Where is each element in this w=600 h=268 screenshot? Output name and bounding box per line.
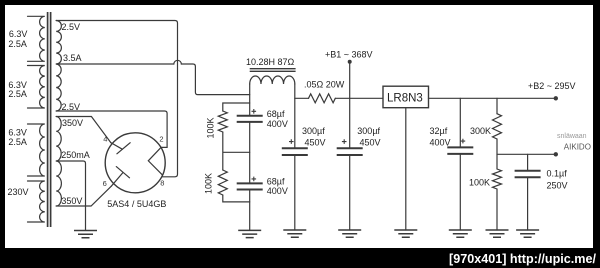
wire C1 to C2	[249, 122, 251, 183]
svg-text:250V: 250V	[547, 180, 568, 190]
svg-text:6: 6	[103, 179, 107, 188]
svg-text:2.5V: 2.5V	[62, 22, 81, 32]
wire R2 bottom connect	[223, 195, 250, 202]
svg-text:250mA: 250mA	[61, 150, 90, 160]
svg-text:2.5V: 2.5V	[62, 102, 81, 112]
wire R5 to ground	[496, 189, 498, 230]
wire heater tap to choke input node	[181, 64, 249, 95]
svg-text:2.5A: 2.5A	[8, 137, 27, 147]
wire rail choke to R3	[295, 97, 309, 99]
resistor R2 100K bleeder lower	[218, 170, 227, 195]
label C4 300uf 450V	[357, 126, 380, 148]
svg-text:400V: 400V	[267, 186, 288, 196]
ground center tap	[74, 231, 97, 238]
resistor R5 100K	[493, 169, 502, 189]
svg-text:68µf: 68µf	[267, 176, 285, 186]
svg-text:100K: 100K	[469, 177, 490, 187]
svg-text:3.5A: 3.5A	[63, 53, 82, 63]
label 250mA center tap	[61, 150, 90, 160]
label 6.3V 2.5A winding W2	[8, 80, 27, 99]
tube plate (pin 4)	[111, 143, 130, 154]
svg-text:snläwaan: snläwaan	[557, 133, 587, 140]
wire R4 to divider tap	[496, 139, 498, 169]
wire heater bottom 2.5V to tube pin 2	[56, 111, 167, 147]
resistor R4 300K	[493, 114, 502, 139]
svg-text:350V: 350V	[61, 196, 82, 206]
transformer T1 primary winding W3	[28, 124, 45, 176]
label R2 100K	[204, 173, 214, 194]
svg-text:100K: 100K	[206, 117, 216, 138]
svg-text:400V: 400V	[430, 137, 451, 147]
choke L1 winding	[250, 76, 295, 84]
ground C6	[516, 230, 539, 237]
svg-text:32µf: 32µf	[430, 126, 448, 136]
node B1	[348, 60, 352, 64]
label R4 300K	[470, 126, 491, 136]
label 6.3V 2.5A winding W3	[8, 127, 27, 147]
ground C2	[238, 230, 261, 237]
svg-text:350V: 350V	[62, 118, 83, 128]
ground R5	[486, 230, 509, 237]
node AIKIDO output	[554, 152, 558, 156]
tube plate (pin 6)	[111, 167, 129, 187]
svg-text:+B2 ~ 295V: +B2 ~ 295V	[528, 81, 576, 91]
label tube 5AS4 / 5U4GB	[107, 199, 166, 209]
svg-text:100K: 100K	[204, 173, 214, 194]
svg-text:2.5A: 2.5A	[8, 39, 27, 49]
wire 100K chain top connect	[223, 103, 250, 111]
label +B2 ~ 295V	[528, 81, 576, 91]
label AIKIDO	[564, 143, 591, 152]
wire hop over pin-8 wire	[174, 60, 181, 64]
label 350V upper	[62, 118, 83, 128]
label 350V lower	[61, 196, 82, 206]
wire C5 to ground	[459, 154, 461, 230]
regulator U1 LR8N3	[383, 86, 429, 108]
svg-text:2.5A: 2.5A	[8, 89, 27, 99]
ground C3	[283, 230, 306, 237]
transformer T1 primary winding W2	[28, 66, 45, 108]
svg-text:300K: 300K	[470, 126, 491, 136]
svg-text:6.3V: 6.3V	[8, 127, 27, 137]
svg-text:2: 2	[159, 134, 163, 143]
label 2.5V top winding	[62, 22, 81, 32]
svg-text:400V: 400V	[267, 119, 288, 129]
svg-text:8: 8	[160, 178, 164, 187]
label R1 100K	[206, 117, 216, 138]
tube filament	[148, 147, 162, 175]
pin number 8	[160, 178, 164, 187]
transformer T1 primary winding W4 230V	[28, 181, 45, 222]
wire choke right terminal down to C3	[294, 84, 296, 148]
wire C6 to ground	[527, 177, 529, 230]
wire rail U1 output to B2	[429, 97, 556, 99]
pin number 2	[159, 134, 163, 143]
wire HV center tap 250mA to ground	[56, 161, 85, 230]
wire C2 to ground	[249, 190, 251, 231]
label R5 100K	[469, 177, 490, 187]
resistor R3 .05ohm 20W	[309, 94, 336, 103]
label C3 300uf 450V	[302, 126, 326, 148]
rectifier tube V1 envelope	[105, 133, 165, 193]
wire heater top to tube pin 8	[56, 21, 177, 177]
capacitor C1 68uf 400V	[237, 109, 263, 122]
label +B1 ~ 368V	[325, 50, 373, 60]
capacitor C4 300uf 450V	[337, 139, 363, 155]
svg-text:450V: 450V	[305, 137, 326, 147]
label 2.5V lower winding	[62, 102, 81, 112]
wire R3 to LR8N3	[335, 97, 383, 99]
capacitor C5 32uf 400V	[447, 139, 473, 154]
label C1 68uf 400V	[267, 109, 288, 129]
svg-text:300µf: 300µf	[302, 126, 325, 136]
wire C3 to ground	[294, 155, 296, 230]
wire B1 node down to C4	[349, 62, 351, 148]
choke L1 core	[250, 69, 296, 72]
wire R1 to R2 with mid tap	[223, 132, 250, 170]
wire choke left terminal down to C1	[249, 84, 251, 116]
capacitor C3 300uf 450V	[282, 139, 308, 155]
label R3 .05ohm 20W	[304, 80, 345, 90]
wire heater tap 3.5A to choke (left part)	[56, 63, 174, 65]
transformer T1 core	[48, 12, 51, 227]
wire tap to C6	[527, 154, 529, 170]
wire divider tap to output node	[497, 153, 556, 155]
transformer T1 primary winding W1	[28, 16, 45, 61]
label 230V winding W4	[8, 187, 29, 197]
svg-text:4: 4	[103, 135, 107, 144]
ground C4	[338, 230, 361, 237]
wire rail to C5	[459, 98, 461, 147]
svg-text:[970x401] http://upic.me/: [970x401] http://upic.me/	[449, 252, 596, 266]
svg-text:450V: 450V	[360, 137, 381, 147]
ground U1 ADJ	[394, 230, 417, 237]
wire C4 to ground	[349, 155, 351, 230]
label 6.3V 2.5A winding W1	[8, 29, 27, 49]
label C6 0.1uf 250V	[547, 169, 568, 191]
transformer T1 secondary HV winding 350-0-350	[56, 117, 61, 206]
svg-text:5AS4 / 5U4GB: 5AS4 / 5U4GB	[107, 199, 166, 209]
watermark 970x401 upic.me	[449, 252, 596, 266]
capacitor C6 0.1uf 250V	[515, 171, 541, 178]
svg-text:68µf: 68µf	[267, 109, 285, 119]
svg-text:+B1 ~ 368V: +B1 ~ 368V	[325, 50, 373, 60]
label 3.5A tap	[63, 53, 82, 63]
transformer T1 secondary heater winding 2.5V+2.5V	[56, 21, 61, 112]
svg-text:6.3V: 6.3V	[9, 29, 28, 39]
label C5 32uf 400V	[430, 126, 451, 148]
svg-text:10.28H 87Ω: 10.28H 87Ω	[246, 57, 295, 67]
pin number 4	[103, 135, 107, 144]
resistor R1 100K bleeder upper	[218, 111, 227, 132]
svg-text:0.1µf: 0.1µf	[547, 169, 568, 179]
label to AIKIDO (thai)	[557, 133, 587, 140]
wire 350V upper to tube pin 4	[56, 117, 111, 143]
svg-text:LR8N3: LR8N3	[387, 92, 423, 104]
capacitor C2 68uf 400V	[237, 177, 263, 190]
svg-text:.05Ω 20W: .05Ω 20W	[304, 80, 345, 90]
wire U1 ADJ to ground	[405, 108, 407, 230]
svg-text:300µf: 300µf	[357, 126, 380, 136]
wire 350V lower to tube pin 6	[56, 186, 111, 206]
svg-text:AIKIDO: AIKIDO	[564, 143, 591, 152]
ground C5	[449, 230, 472, 237]
wire rail to R4	[496, 98, 498, 113]
pin number 6	[103, 179, 107, 188]
label C2 68uf 400V	[267, 176, 288, 196]
node B2	[554, 96, 558, 100]
svg-text:230V: 230V	[8, 187, 29, 197]
label choke 10.28H 87ohm	[246, 57, 295, 67]
